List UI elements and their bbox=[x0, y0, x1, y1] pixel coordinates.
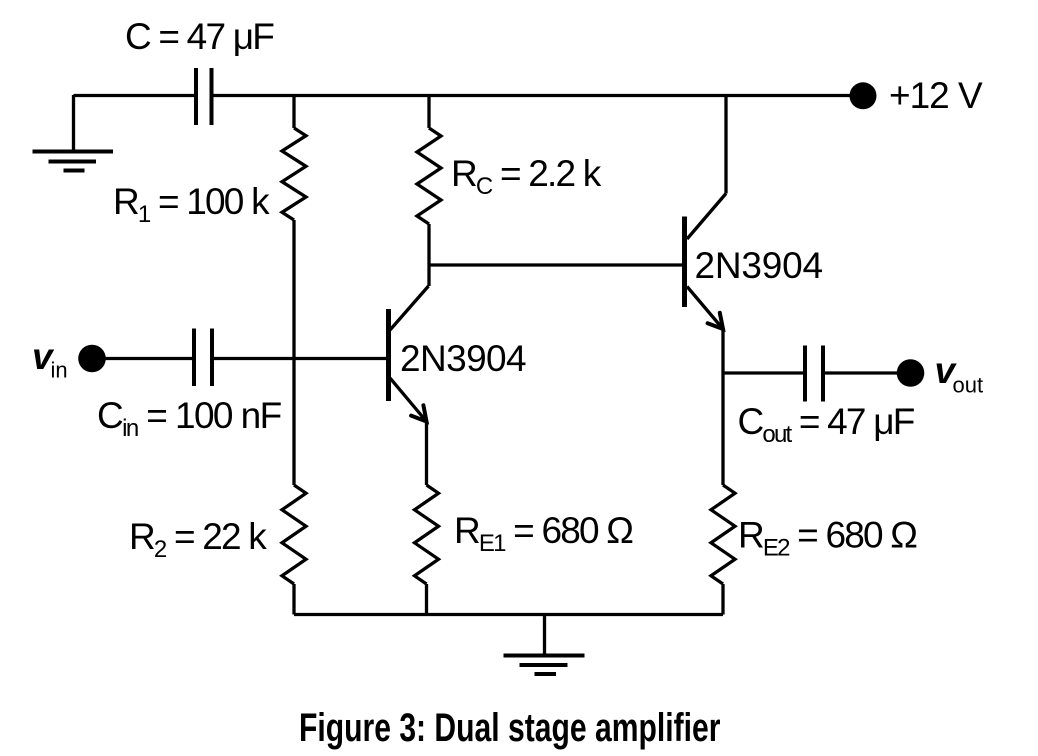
node vin bbox=[78, 345, 106, 373]
resistor R1 bbox=[282, 128, 306, 220]
wire RE1 bottom stub bbox=[425, 584, 428, 615]
resistor RE1 bbox=[415, 485, 439, 584]
node +12 V bbox=[850, 82, 877, 109]
wire Cout to vout node bbox=[825, 371, 897, 374]
transistor Q2 emitter arrowhead bbox=[708, 313, 723, 329]
transistor Q2 base bar bbox=[682, 217, 687, 308]
wire Q1 emitter to RE1 bbox=[425, 421, 428, 485]
wire Cin to Q1 base (crosses R1-R2 link) bbox=[214, 357, 387, 360]
svg-text:+12 V: +12 V bbox=[889, 75, 983, 116]
svg-text:RC = 2.2 k: RC = 2.2 k bbox=[451, 153, 602, 200]
svg-text:R1 = 100 k: R1 = 100 k bbox=[113, 181, 270, 228]
ground (top left) bbox=[33, 152, 114, 171]
wire top rail left of capacitor C bbox=[74, 94, 195, 97]
svg-text:in: in bbox=[51, 358, 68, 383]
transistor Q2 emitter diagonal bbox=[687, 287, 723, 330]
capacitor Cout (plates) bbox=[805, 346, 823, 402]
transistor Q2 collector diagonal bbox=[687, 194, 726, 240]
svg-text:2N3904: 2N3904 bbox=[400, 338, 526, 379]
capacitor C (plates) bbox=[196, 68, 212, 125]
capacitor Cin (plates) bbox=[194, 329, 212, 387]
wire RE2 bottom stub bbox=[721, 584, 724, 615]
transistor Q1 collector diagonal bbox=[390, 286, 429, 330]
wire Q2 collector to top rail bbox=[724, 95, 727, 194]
wire Q1 collector to Q2 base bbox=[429, 263, 682, 266]
wire RC top stub bbox=[427, 95, 430, 128]
transistor Q1 base bar bbox=[386, 309, 391, 401]
wire vin to Cin bbox=[92, 357, 192, 360]
transistor Q1 emitter diagonal bbox=[390, 378, 427, 422]
resistor R2 bbox=[282, 485, 306, 584]
wire R1 to R2 vertical link bbox=[292, 220, 295, 485]
wire RC bottom to Q1 collector junction bbox=[427, 224, 430, 286]
resistor RC bbox=[417, 128, 441, 224]
ground (bottom) bbox=[504, 656, 585, 675]
wire left ground stub bbox=[72, 95, 75, 152]
svg-text:C = 47 μF: C = 47 μF bbox=[125, 16, 274, 57]
wire bottom rail bbox=[294, 613, 723, 616]
svg-text:out: out bbox=[953, 373, 984, 398]
node vout bbox=[897, 359, 925, 387]
resistor RE2 bbox=[711, 485, 735, 584]
wire bottom ground stub bbox=[543, 615, 546, 656]
wire R2 bottom stub bbox=[292, 584, 295, 615]
wire top rail right of capacitor C (+12V rail) bbox=[214, 94, 851, 97]
wire output: Q2 emitter to Cout bbox=[723, 371, 803, 374]
wire Q2 emitter down to RE2 (through output junction) bbox=[721, 329, 724, 485]
svg-text:Figure 3: Dual stage amplifier: Figure 3: Dual stage amplifier bbox=[299, 706, 721, 750]
svg-text:R2 = 22 k: R2 = 22 k bbox=[129, 516, 267, 563]
wire R1 top stub bbox=[292, 95, 295, 128]
svg-text:2N3904: 2N3904 bbox=[695, 245, 823, 286]
transistor Q1 emitter arrowhead bbox=[411, 405, 426, 421]
